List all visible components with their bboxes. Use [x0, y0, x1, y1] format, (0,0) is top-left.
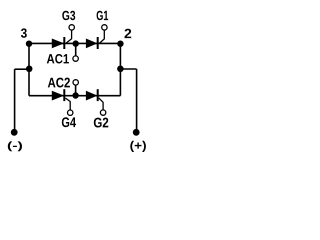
label G2	[94, 118, 109, 128]
wire left rail	[28, 43, 30, 95]
wire left stub to (-)	[14, 69, 16, 132]
terminal G1 circle	[102, 25, 107, 30]
thyristor AC2-right anode-triangle	[86, 91, 97, 100]
wire AC2 circle stem	[75, 85, 77, 95]
label AC2	[48, 78, 70, 88]
wire right stub to (+)	[136, 69, 138, 132]
label 3	[21, 28, 27, 37]
wire top row	[29, 42, 120, 44]
thyristor AC2-right cathode bar	[97, 89, 99, 101]
wire left branch	[15, 68, 29, 70]
node (+) terminal dot	[133, 129, 140, 136]
wire AC1 circle stem	[75, 44, 77, 56]
label G4	[62, 117, 76, 127]
thyristor AC2-left gate lead	[66, 98, 71, 110]
label (+)	[130, 141, 146, 152]
label 2	[125, 29, 132, 38]
terminal G2 circle	[100, 110, 105, 115]
label (-)	[8, 141, 22, 151]
wire right rail	[119, 43, 121, 95]
label AC1	[47, 54, 69, 64]
thyristor AC2-right gate lead	[99, 98, 104, 110]
node AC1 junction	[73, 40, 79, 46]
terminal AC2 circle	[73, 80, 78, 85]
terminal G4 circle	[68, 110, 73, 115]
thyristor AC2-left cathode bar	[63, 89, 65, 101]
thyristor AC2-left anode-triangle	[52, 91, 63, 100]
thyristor AC1-left cathode bar	[63, 37, 65, 49]
terminal AC1 circle	[73, 56, 78, 61]
thyristor AC1-right gate lead	[100, 30, 105, 43]
thyristor AC1-left anode-triangle	[52, 39, 63, 48]
node (-) terminal dot	[11, 129, 18, 136]
label G3	[62, 11, 75, 21]
node terminal 2	[117, 41, 123, 47]
thyristor AC1-left gate lead	[66, 30, 71, 43]
node left junction	[26, 66, 33, 73]
node right junction	[117, 66, 124, 73]
wire bottom row	[29, 95, 120, 97]
thyristor AC1-right cathode bar	[97, 37, 99, 49]
label G1	[97, 11, 109, 21]
wire right branch	[120, 68, 136, 70]
terminal G3 circle	[69, 25, 74, 30]
node AC2 junction	[72, 92, 78, 98]
thyristor AC1-right anode-triangle	[86, 39, 97, 48]
node terminal 3	[26, 41, 32, 47]
